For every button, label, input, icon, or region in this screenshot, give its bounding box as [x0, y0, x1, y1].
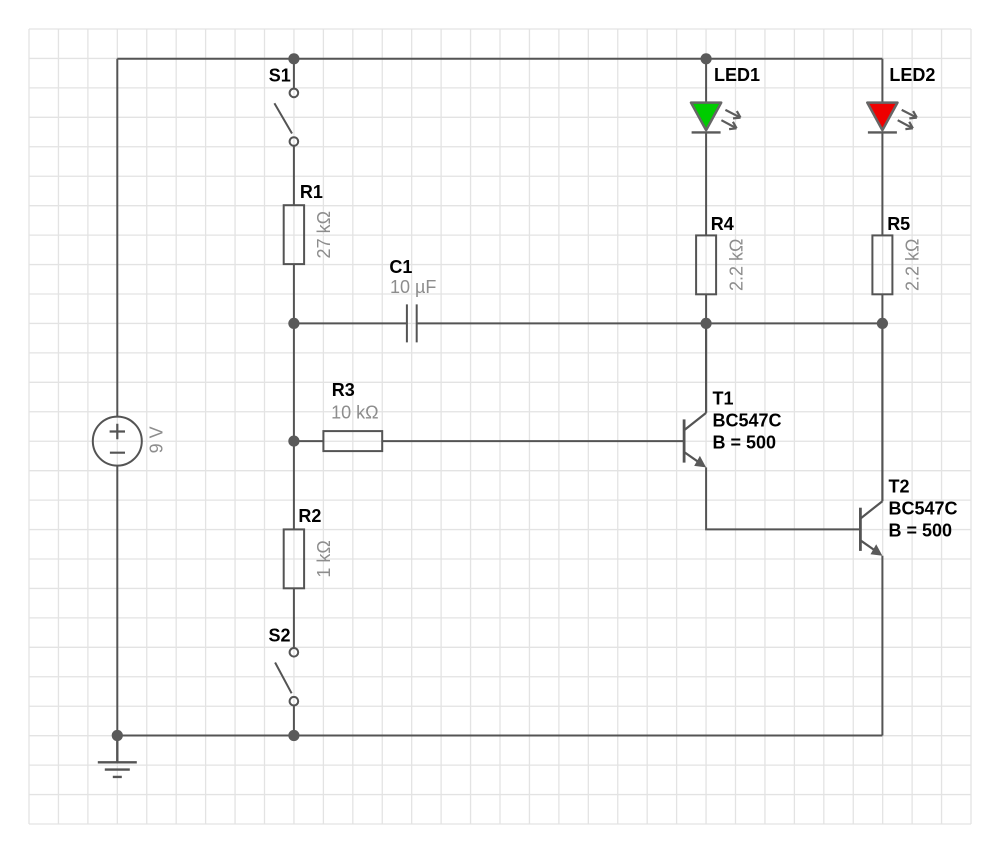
svg-text:R3: R3	[332, 380, 355, 400]
svg-text:27 kΩ: 27 kΩ	[314, 211, 334, 258]
svg-text:10 µF: 10 µF	[390, 277, 436, 297]
svg-text:LED1: LED1	[714, 65, 760, 85]
svg-text:T1: T1	[713, 389, 734, 409]
svg-text:R2: R2	[298, 506, 321, 526]
svg-text:S1: S1	[269, 65, 291, 85]
svg-text:1 kΩ: 1 kΩ	[314, 540, 334, 577]
svg-text:LED2: LED2	[889, 65, 935, 85]
svg-text:R4: R4	[711, 214, 734, 234]
svg-text:R5: R5	[887, 214, 910, 234]
svg-text:2.2 kΩ: 2.2 kΩ	[726, 239, 746, 291]
svg-text:S2: S2	[269, 625, 291, 645]
svg-text:T2: T2	[889, 476, 910, 496]
svg-text:B = 500: B = 500	[889, 520, 953, 540]
svg-text:10 kΩ: 10 kΩ	[331, 402, 378, 422]
svg-text:BC547C: BC547C	[889, 498, 958, 518]
svg-text:B = 500: B = 500	[713, 433, 777, 453]
svg-text:R1: R1	[300, 182, 323, 202]
svg-text:9 V: 9 V	[147, 426, 167, 453]
svg-text:C1: C1	[389, 257, 412, 277]
svg-text:BC547C: BC547C	[713, 411, 782, 431]
svg-text:2.2 kΩ: 2.2 kΩ	[903, 239, 923, 291]
